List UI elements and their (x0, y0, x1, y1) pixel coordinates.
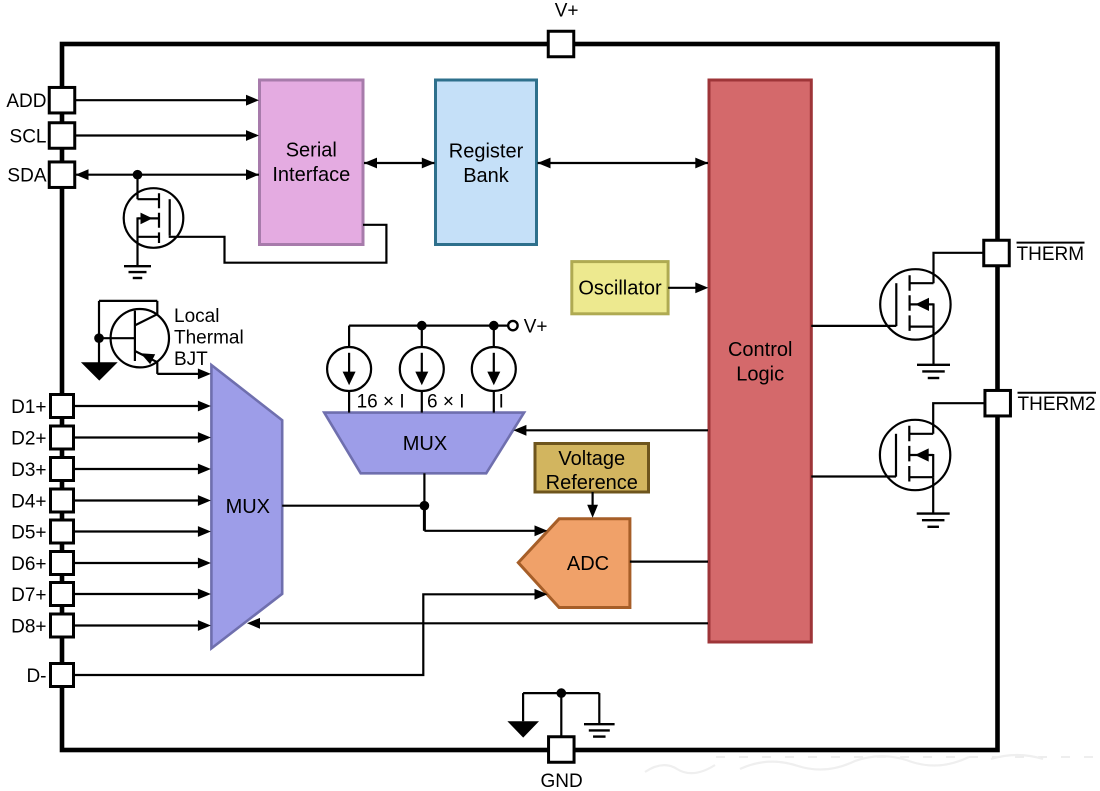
wire: D7+ pin to input MUX (75, 589, 211, 600)
wire: V+ rail feeding current sources (349, 325, 508, 327)
wire: D8+ pin to input MUX (75, 620, 211, 631)
pin: D7+ (51, 583, 74, 606)
label: Voltage Reference (546, 448, 638, 494)
wire: Voltage Reference to ADC (587, 492, 598, 518)
label: D6+ (11, 554, 46, 575)
block: Register Bank (436, 80, 537, 245)
node: junction at BJT base/ground (94, 333, 104, 343)
svg-text:D7+: D7+ (11, 585, 46, 606)
wire: Control Logic to Q2 gate (811, 325, 896, 327)
label: D8+ (11, 616, 46, 637)
label: D7+ (11, 585, 46, 606)
block: ADC (pentagon) (518, 519, 630, 608)
transistor Q2: THERM open-drain NMOS (880, 269, 950, 339)
label: D4+ (11, 491, 46, 512)
wire: D- pin route to ADC lower input (75, 589, 548, 675)
node: junction current source 2 (417, 321, 427, 331)
pin: D1+ (51, 395, 74, 418)
pin: D8+ (51, 614, 74, 637)
label: THERM2 (with overbar) (1018, 393, 1097, 415)
label: ADD (6, 91, 46, 112)
svg-text:I: I (499, 392, 504, 413)
wire: D3+ pin to input MUX (75, 464, 211, 475)
block: Voltage Reference (535, 444, 649, 493)
wire: D2+ pin to input MUX (75, 432, 211, 443)
node: junction on GND tie bar (557, 688, 567, 698)
wire: Q2 drain to THERM pin (934, 253, 986, 283)
pin: D5+ (51, 520, 74, 543)
wire: current MUX bottom to junction (423, 473, 425, 505)
wire: Q2 source to ground (932, 327, 934, 365)
svg-text:THERM2: THERM2 (1018, 394, 1096, 415)
wire: SDA pin to Serial Interface (bidirectional) (76, 169, 260, 180)
label: input MUX (226, 496, 270, 518)
svg-text:D8+: D8+ (11, 616, 46, 637)
ground: analog ground arrow below BJT (81, 362, 118, 380)
label: D2+ (11, 428, 46, 449)
label: D3+ (11, 460, 46, 481)
label: V+ pin (555, 1, 579, 22)
current source I3 (472, 326, 516, 413)
wire: D4+ pin to input MUX (75, 495, 211, 506)
svg-text:6 × I: 6 × I (427, 392, 465, 413)
label: D- (26, 666, 46, 687)
pin: D6+ (51, 552, 74, 575)
block: Control Logic (709, 80, 811, 642)
pin: GND (bottom) (549, 737, 575, 763)
svg-text:D5+: D5+ (11, 522, 46, 543)
wire: left GND branch (522, 693, 524, 721)
label: current source I1 value (357, 392, 405, 413)
wire: D5+ pin to input MUX (75, 526, 211, 537)
label: D1+ (11, 397, 46, 418)
svg-text:Serial: Serial (286, 139, 337, 161)
pin: D2+ (51, 426, 74, 449)
wire: input MUX output to junction (282, 505, 424, 507)
terminal: V+ open circle (508, 321, 517, 330)
svg-text:D3+: D3+ (11, 460, 46, 481)
current source I2 (400, 326, 444, 413)
decoration: faint scan artifact below border (645, 755, 1096, 773)
label: THERM (with overbar) (1017, 243, 1085, 265)
chip boundary (device outline) (62, 44, 998, 750)
ground: analog ground arrow (GND) (507, 721, 539, 737)
label: current source I2 value (427, 392, 465, 413)
wire: D1+ pin to input MUX (75, 401, 211, 412)
svg-text:MUX: MUX (226, 496, 270, 518)
svg-text:D2+: D2+ (11, 428, 46, 449)
svg-text:V+: V+ (555, 1, 579, 22)
ground: below Q2 (917, 365, 950, 378)
node: junction current source 3 (489, 321, 499, 331)
label: Register Bank (449, 140, 524, 187)
svg-text:16 × I: 16 × I (357, 392, 405, 413)
pin: SCL (49, 123, 75, 149)
label: Control Logic (728, 339, 792, 386)
svg-text:Reference: Reference (546, 472, 638, 494)
wire: BJT emitter to input MUX (157, 369, 211, 380)
block: input MUX (left trapezoid) (211, 365, 282, 648)
wire: Q3 source to ground (932, 477, 934, 513)
node: junction on SDA line (133, 170, 143, 180)
current source I1 (327, 326, 371, 413)
wire: Register Bank to Control Logic (bidirectional) (538, 158, 709, 169)
wire: SCL pin to Serial Interface (75, 130, 259, 141)
svg-text:Control: Control (728, 339, 792, 361)
block: current MUX (top trapezoid) (324, 413, 524, 474)
label: GND pin (540, 771, 582, 791)
svg-text:THERM: THERM (1017, 244, 1085, 265)
svg-text:D-: D- (26, 666, 46, 687)
pin: V+ (top) (548, 31, 574, 57)
svg-text:D1+: D1+ (11, 397, 46, 418)
pin: D4+ (51, 489, 74, 512)
svg-text:Bank: Bank (463, 165, 510, 187)
label: Local Thermal BJT (174, 306, 244, 370)
label: ADC (567, 553, 609, 575)
label: current source I3 value (499, 392, 504, 413)
label: SDA (7, 166, 46, 187)
ground: signal ground (GND) (584, 724, 615, 736)
wire: Serial Interface to Register Bank (bidirectional) (364, 158, 435, 169)
svg-text:Thermal: Thermal (174, 327, 244, 348)
pin: D- (51, 664, 74, 687)
node: junction of MUX outputs (420, 501, 430, 531)
svg-text:Voltage: Voltage (558, 448, 625, 470)
wire: right GND branch (598, 693, 600, 724)
svg-text:ADD: ADD (6, 91, 46, 112)
label: V+ (current source rail) (524, 317, 548, 338)
pin: D3+ (51, 458, 74, 481)
ground: below Q3 (917, 514, 950, 527)
wire: Oscillator to Control Logic (668, 282, 708, 293)
wire: ADD pin to Serial Interface (75, 95, 259, 106)
svg-text:Logic: Logic (736, 363, 784, 385)
block: Serial Interface (260, 80, 364, 245)
svg-text:V+: V+ (524, 317, 548, 338)
svg-text:MUX: MUX (403, 433, 447, 455)
wire: GND pin stem (560, 693, 562, 737)
wire: Control Logic to current MUX select (513, 425, 708, 436)
pin: SDA (49, 162, 75, 188)
svg-text:SDA: SDA (7, 166, 46, 187)
wire: ADC output to Control Logic (630, 560, 708, 562)
wire: Serial Interface output to Q1 gate (169, 225, 387, 263)
wire: Q3 drain to THERM2 pin (933, 403, 986, 434)
ground: below Q1 (124, 266, 151, 278)
svg-text:Register: Register (449, 140, 524, 162)
svg-text:D4+: D4+ (11, 491, 46, 512)
svg-text:D6+: D6+ (11, 554, 46, 575)
wire: junction to ADC upper input (424, 525, 547, 536)
label: SCL (10, 126, 47, 147)
wire: GND tie bar (523, 692, 599, 694)
svg-text:SCL: SCL (10, 126, 47, 147)
svg-text:Interface: Interface (272, 164, 350, 186)
label: current MUX (403, 433, 447, 455)
wire: Control Logic to Q3 gate (811, 475, 896, 477)
label: Serial Interface (272, 139, 350, 186)
pin: THERM (984, 240, 1010, 266)
wire: D6+ pin to input MUX (75, 558, 211, 569)
svg-text:BJT: BJT (174, 349, 208, 370)
pin: ADD (49, 87, 75, 113)
label: D5+ (11, 522, 46, 543)
transistor Q3: THERM2 open-drain NMOS (880, 420, 950, 490)
wire: Control Logic return to input MUX (247, 618, 708, 629)
block: Oscillator (572, 262, 668, 314)
transistor Q1: SDA pull-down NMOS (124, 175, 184, 267)
svg-text:GND: GND (540, 771, 582, 791)
svg-text:Local: Local (174, 306, 219, 327)
label: Oscillator (578, 278, 662, 300)
svg-text:Oscillator: Oscillator (578, 278, 662, 300)
pin: THERM2 (985, 390, 1011, 416)
transistor: local thermal BJT (diode connected) (99, 301, 169, 374)
svg-text:ADC: ADC (567, 553, 609, 575)
